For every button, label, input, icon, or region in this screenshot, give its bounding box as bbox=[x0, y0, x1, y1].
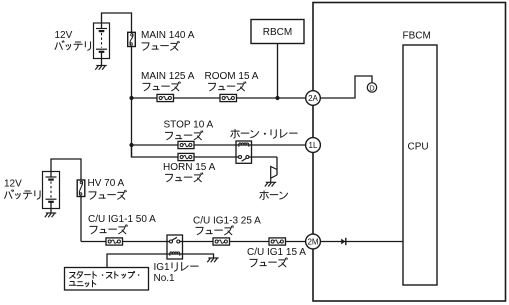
svg-text:CPU: CPU bbox=[408, 142, 429, 153]
svg-text:D: D bbox=[369, 84, 375, 93]
relay K1 horn relay bbox=[236, 141, 252, 163]
node junction J3 bbox=[129, 143, 133, 147]
fuse HV 70A bbox=[77, 180, 85, 197]
wire battery2 negative lead bbox=[50, 202, 52, 213]
svg-text:RBCM: RBCM bbox=[263, 27, 292, 38]
fuse C/U IG1-3 25A bbox=[213, 238, 230, 245]
wire RBCM drop bbox=[277, 44, 279, 99]
fuse HORN 15A bbox=[178, 153, 194, 160]
wire battery1 negative lead bbox=[101, 52, 103, 65]
svg-text:FBCM: FBCM bbox=[403, 31, 431, 42]
CPU block bbox=[403, 45, 437, 285]
fuse MAIN 140A bbox=[128, 32, 136, 46]
wire row IG1 bbox=[81, 241, 313, 243]
fuse ROOM 15A bbox=[220, 94, 237, 101]
wire row STOP bbox=[132, 144, 314, 146]
svg-text:STOP 10 A: STOP 10 A bbox=[164, 120, 214, 131]
svg-text:MAIN 140 A: MAIN 140 A bbox=[141, 30, 195, 41]
svg-text:2M: 2M bbox=[307, 238, 318, 247]
node 1L bbox=[306, 138, 321, 153]
fuse C/U IG1 15A bbox=[269, 238, 286, 245]
horn H1 bbox=[271, 167, 277, 180]
node 2M bbox=[306, 234, 321, 249]
svg-text:No.1: No.1 bbox=[154, 273, 176, 284]
wire horn branch bbox=[276, 157, 278, 175]
fuse MAIN 125A bbox=[157, 94, 174, 101]
ground G2 bbox=[46, 212, 56, 214]
svg-text:C/U IG1-1 50 A: C/U IG1-1 50 A bbox=[88, 214, 156, 225]
svg-text:1L: 1L bbox=[309, 141, 318, 150]
svg-text:MAIN 125 A: MAIN 125 A bbox=[141, 71, 195, 82]
diode arrow D1 bbox=[341, 239, 345, 245]
node D connector bbox=[367, 83, 376, 92]
node junction J1 bbox=[129, 96, 133, 100]
fuse STOP 10A bbox=[178, 141, 194, 148]
wire battery2 positive lead bbox=[51, 159, 81, 180]
wire K2 coil to unit bbox=[107, 254, 167, 268]
wire row MAIN125/ROOM bbox=[132, 97, 314, 99]
wire battery1 positive lead bbox=[102, 13, 132, 33]
node junction J2 bbox=[275, 96, 279, 100]
svg-text:12V: 12V bbox=[55, 30, 73, 41]
wire K2 coil to ground bbox=[183, 254, 214, 258]
svg-text:12V: 12V bbox=[4, 179, 22, 190]
horn H1 label bbox=[260, 192, 268, 194]
relay K2 IG1 relay No.1 bbox=[167, 235, 183, 259]
wire row HORN bbox=[132, 145, 278, 157]
ground G4 bbox=[208, 257, 218, 259]
battery B1 12V bbox=[94, 23, 110, 59]
RBCM module box bbox=[251, 20, 304, 44]
relay K1 label bbox=[231, 130, 239, 132]
wire trunk2 bbox=[80, 197, 82, 242]
svg-text:2A: 2A bbox=[308, 94, 318, 103]
svg-text:ROOM 15 A: ROOM 15 A bbox=[205, 71, 259, 82]
svg-text:HV 70 A: HV 70 A bbox=[88, 178, 125, 189]
svg-text:HORN 15 A: HORN 15 A bbox=[163, 162, 216, 173]
start-stop unit box bbox=[65, 268, 149, 291]
wire trunk1 bbox=[131, 47, 133, 158]
svg-text:C/U IG1-3 25 A: C/U IG1-3 25 A bbox=[193, 216, 261, 227]
start-stop unit label bbox=[70, 273, 75, 279]
ground G1 bbox=[96, 65, 106, 67]
node 2A bbox=[306, 91, 321, 106]
FBCM module box bbox=[313, 3, 506, 302]
battery B2 12V bbox=[43, 172, 60, 209]
svg-text:IG1: IG1 bbox=[154, 262, 171, 273]
wire 2M to CPU bbox=[320, 241, 403, 243]
fuse C/U IG1-1 50A bbox=[106, 238, 123, 245]
ground G3 horn bbox=[266, 181, 276, 183]
wire 2A to D bbox=[320, 76, 372, 98]
svg-text:C/U IG1 15 A: C/U IG1 15 A bbox=[247, 247, 306, 258]
